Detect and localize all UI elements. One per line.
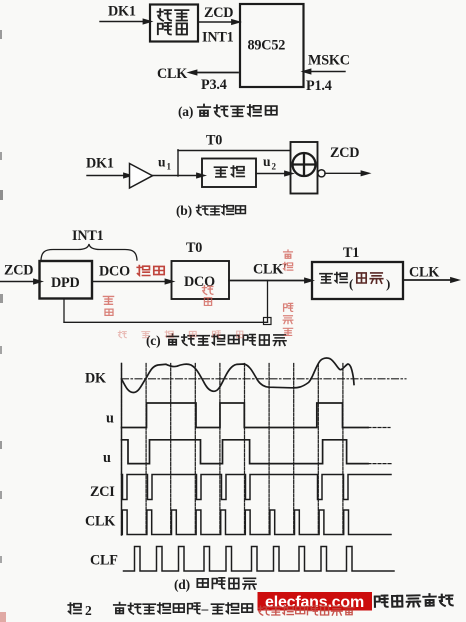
- block DPD phase detector: [40, 261, 93, 299]
- wire CLK from P3.4: [196, 72, 238, 74]
- IC U1 89C52: [240, 4, 304, 87]
- ZCD pulse waveform (down notches): [122, 475, 392, 500]
- wire MSKC into P1.4: [309, 71, 345, 73]
- wire u2 delay to XOR: [256, 173, 287, 175]
- red caption continuation watermark chars: [258, 606, 353, 616]
- svg-text:INT1: INT1: [72, 228, 104, 244]
- wire DCO to delay, CLKp: [229, 280, 306, 282]
- svg-text:CLF: CLF: [90, 553, 118, 569]
- u2 square waveform (delayed): [122, 440, 369, 464]
- svg-text:INT1: INT1: [202, 29, 234, 45]
- wire ZCD/INT1 to 89C52: [198, 21, 233, 23]
- svg-text:DCO: DCO: [99, 264, 130, 280]
- brace over DPD: [41, 244, 137, 260]
- svg-text:): ): [386, 276, 390, 291]
- wire DK1 to buffer: [87, 175, 126, 177]
- svg-text:CLK′: CLK′: [253, 262, 287, 278]
- svg-text:1: 1: [167, 162, 172, 172]
- svg-text:(: (: [349, 276, 353, 291]
- svg-text:–: –: [201, 601, 209, 616]
- wire DPD to DCO: [92, 281, 167, 283]
- svg-text:T0: T0: [186, 240, 202, 256]
- block delay (yan-shi): [202, 159, 256, 188]
- svg-text:MSKC: MSKC: [308, 53, 350, 69]
- svg-text:P3.4: P3.4: [201, 77, 227, 93]
- svg-text:2: 2: [85, 603, 92, 618]
- svg-text:T0: T0: [206, 133, 222, 149]
- u1 square waveform: [122, 403, 369, 428]
- svg-text:(b): (b): [176, 203, 192, 218]
- svg-text:ZCD: ZCD: [330, 145, 359, 161]
- CLKprime pulse waveform: [124, 547, 395, 572]
- wire ZCD out arrow: [325, 172, 363, 174]
- dianzifashaoyou brand calligraphy: [375, 594, 453, 608]
- svg-text:ZCI: ZCI: [90, 484, 115, 500]
- svg-text:89C52: 89C52: [248, 38, 286, 54]
- XOR gate box with oplus: [291, 142, 318, 194]
- wire DK1 input arrow: [100, 21, 146, 23]
- svg-text:ZCD: ZCD: [204, 5, 233, 21]
- svg-text:DK1: DK1: [86, 156, 114, 172]
- feedback wire CLKp down-left-up into DPD: [267, 281, 269, 323]
- svg-text:2: 2: [272, 162, 277, 172]
- wire CLK output (c): [403, 279, 452, 281]
- svg-text:(a): (a): [178, 104, 193, 119]
- svg-text:ZCD: ZCD: [4, 263, 33, 279]
- elecfans.com red logo box: [258, 592, 373, 611]
- wire ZCD into DPD: [0, 281, 36, 283]
- block DCO: [172, 261, 230, 299]
- junction square on feedback: [264, 318, 272, 325]
- block edge-detector (bian-yuan jian-ce): [150, 5, 198, 42]
- inverter bubble on XOR output: [318, 170, 325, 177]
- svg-text:u: u: [263, 154, 271, 169]
- svg-text:u: u: [106, 411, 114, 427]
- svg-text:DK1: DK1: [108, 4, 136, 20]
- svg-text:CLK: CLK: [409, 265, 439, 281]
- CLK pulse waveform: [122, 510, 392, 535]
- watermark red fragments: [103, 250, 292, 335]
- svg-text:CLK: CLK: [157, 66, 187, 82]
- DK zero dash-dot line: [122, 378, 407, 380]
- wire buffer to delay box: [153, 175, 200, 177]
- block delay(phase-shift): [312, 262, 403, 299]
- waveform grid vertical lines: [121, 364, 123, 534]
- svg-text:DK: DK: [85, 371, 106, 387]
- svg-text:CLK: CLK: [85, 514, 115, 530]
- svg-text:u: u: [158, 155, 166, 170]
- scan artifacts left edge: [0, 30, 2, 39]
- figure 2 caption black part: [68, 603, 81, 613]
- waveform left axis: [121, 364, 123, 536]
- svg-text:P1.4: P1.4: [306, 78, 332, 94]
- buffer amp triangle: [130, 164, 153, 189]
- svg-text:T1: T1: [343, 245, 359, 261]
- svg-text:DPD: DPD: [51, 275, 80, 291]
- DK analog waveform: [122, 358, 355, 393]
- svg-text:u: u: [103, 450, 111, 466]
- red watermark chars over kongzhi: [137, 265, 164, 275]
- svg-text:(d): (d): [174, 577, 190, 592]
- wire u1 branch up/over to XOR top input: [178, 150, 291, 152]
